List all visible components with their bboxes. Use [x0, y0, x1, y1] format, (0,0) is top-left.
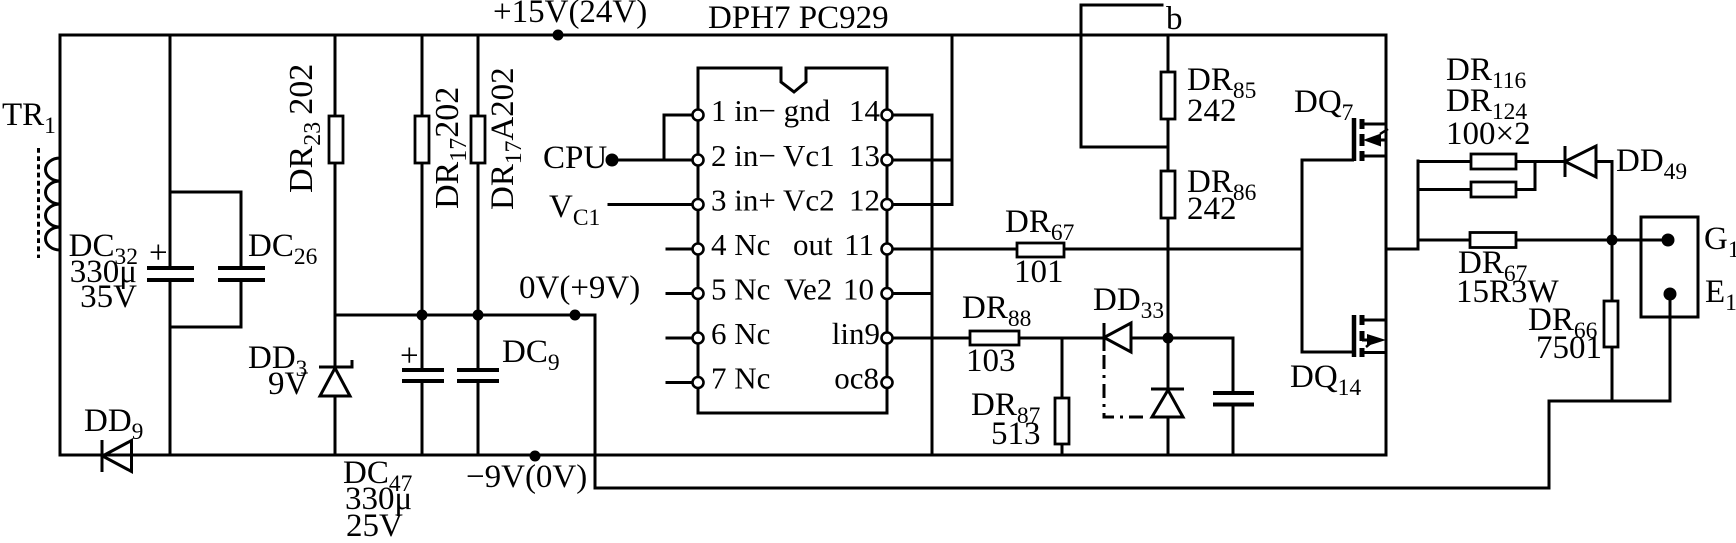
- svg-text:−9V(0V): −9V(0V): [466, 459, 587, 495]
- diode DD49: [1565, 146, 1596, 177]
- resistor DR67 (101) body: [1017, 243, 1064, 257]
- DQ14 gate bar: [1352, 315, 1357, 357]
- wire DR88 to DD33: [1019, 337, 1104, 340]
- wire bottom -9V rail: [60, 454, 1386, 457]
- wire DR86 bottom to clamp node: [1167, 218, 1170, 389]
- svg-text:513: 513: [991, 416, 1041, 452]
- svg-text:oc8: oc8: [834, 361, 879, 396]
- svg-text:b: b: [1166, 1, 1183, 37]
- svg-text:DR17202: DR17202: [429, 87, 472, 209]
- wire DR124 line left: [1418, 188, 1471, 191]
- junction dot G1 drive node: [1607, 235, 1618, 246]
- svg-text:DD33: DD33: [1093, 282, 1164, 324]
- wire DQ7 body tap with arrow: [1374, 139, 1386, 142]
- wire DC26 loop bottom: [170, 326, 241, 329]
- svg-text:+15V(24V): +15V(24V): [493, 0, 647, 30]
- wire E1 terminal down vertical: [1669, 294, 1672, 401]
- junction dot 0V rail label marker: [570, 310, 581, 321]
- svg-text:9V: 9V: [268, 366, 309, 402]
- wire pin6 stub: [667, 337, 698, 340]
- wire CPU to pin2: [612, 159, 698, 162]
- junction dot DR17/0V rail: [417, 310, 428, 321]
- wire DR17A to DC9 vertical: [477, 163, 480, 370]
- svg-text:7501: 7501: [1536, 330, 1602, 366]
- wire pin5 stub: [667, 292, 698, 295]
- wire zener bottom vertical: [1167, 417, 1170, 455]
- zener diode DD3: [319, 360, 352, 396]
- svg-text:25V: 25V: [346, 508, 403, 543]
- wire DC32 branch vertical lower: [169, 280, 172, 455]
- svg-text:G1: G1: [1704, 221, 1736, 263]
- wire DR23 top vertical: [334, 35, 337, 116]
- svg-text:14: 14: [849, 93, 881, 128]
- svg-text:TR1: TR1: [2, 97, 56, 139]
- wire right half-bridge bus vertical: [1385, 35, 1388, 455]
- wire pin9 lin to DR88: [887, 337, 970, 340]
- wire DR67 to gate drive vertical: [1064, 248, 1302, 251]
- wire b loop left vertical: [1080, 5, 1083, 147]
- wire snubber cap top vertical: [1232, 338, 1235, 393]
- wire DD33 to snubber cap corner: [1131, 337, 1233, 340]
- capacitor DC47 plates: [402, 370, 444, 381]
- node b stub top: [1081, 4, 1162, 7]
- svg-text:5 Nc: 5 Nc: [711, 272, 770, 307]
- wire E1 bottom link: [1549, 400, 1670, 403]
- wire 0V rail elbow down: [594, 315, 597, 488]
- wire gate drive vertical: [1301, 160, 1304, 352]
- resistor DR87 (513) body: [1055, 398, 1069, 444]
- wire 15R3W to G1 terminal: [1516, 239, 1668, 242]
- wire pin11 out to DR67: [887, 248, 1017, 251]
- wire DQ7 gate lead: [1302, 159, 1354, 162]
- svg-text:10: 10: [843, 272, 874, 307]
- wire snubber cap bottom vertical: [1232, 405, 1235, 456]
- op-amp U1 DPH7 PC929 IC outline with notch: [698, 68, 887, 413]
- wire pin1 stub: [664, 114, 698, 117]
- wire DQ7 source tap: [1362, 155, 1386, 158]
- wire DR85 top vertical: [1167, 35, 1170, 72]
- svg-text:13: 13: [849, 138, 880, 173]
- wire 0V(+9V) rail: [335, 314, 595, 317]
- wire DC26 loop bottom vertical: [240, 280, 243, 327]
- svg-text:242: 242: [1187, 93, 1237, 129]
- resistor DR85 body: [1161, 72, 1175, 119]
- wire gnd/Ve2 net vertical to -9V rail: [931, 115, 934, 455]
- wire DR66 top vertical: [1611, 240, 1614, 301]
- junction dot DR17A/0V rail: [473, 310, 484, 321]
- svg-text:0V(+9V): 0V(+9V): [519, 270, 640, 306]
- wire DR66 bottom vertical: [1611, 347, 1614, 401]
- diode DD9: [102, 440, 132, 472]
- svg-text:E1: E1: [1705, 274, 1736, 316]
- pin circles left 1-7: [693, 110, 893, 389]
- wire DR17 top vertical: [421, 35, 424, 116]
- svg-text:DD9: DD9: [84, 403, 143, 445]
- wire output node jog vertical: [1417, 161, 1420, 249]
- junction dot -9V rail label marker: [530, 451, 541, 462]
- svg-text:DC26: DC26: [248, 228, 318, 270]
- svg-text:100×2: 100×2: [1446, 116, 1531, 152]
- svg-text:DPH7 PC929: DPH7 PC929: [708, 0, 889, 36]
- svg-text:CPU: CPU: [543, 140, 607, 176]
- svg-text:2 in− Vc1: 2 in− Vc1: [711, 138, 835, 173]
- svg-text:35V: 35V: [80, 279, 137, 315]
- svg-text:12: 12: [849, 183, 880, 218]
- wire DC26 loop left-top vertical: [240, 192, 243, 268]
- wire pin7 stub: [667, 381, 698, 384]
- terminal dot E1: [1664, 288, 1677, 301]
- junction dot CPU node: [606, 154, 619, 167]
- svg-text:11: 11: [844, 227, 874, 262]
- wire pin10 stub: [887, 292, 932, 295]
- wire DR87 bottom vertical: [1061, 444, 1064, 455]
- svg-text:6 Nc: 6 Nc: [711, 316, 770, 351]
- wire DQ7 drain tap: [1362, 123, 1386, 126]
- capacitor DC32 plates: [147, 268, 194, 280]
- resistor DR88 (103) body: [970, 331, 1019, 345]
- svg-text:Ve2: Ve2: [784, 272, 832, 307]
- wire DQ14 source tap: [1362, 351, 1386, 354]
- terminal block G1/E1: [1641, 217, 1698, 317]
- dash-dot annotation link DD33 to zener: [1104, 355, 1147, 417]
- wire VC1 to pin3: [609, 203, 698, 206]
- svg-text:DR88: DR88: [962, 290, 1031, 332]
- wire DR116 to DD49: [1516, 160, 1565, 163]
- svg-text:DQ14: DQ14: [1290, 359, 1361, 401]
- resistor DR17A body: [471, 116, 485, 163]
- wire DR116 line left: [1418, 160, 1471, 163]
- wire DR124 right link: [1516, 188, 1535, 191]
- wire pin14 stub: [887, 114, 932, 117]
- wire DQ14 body tap with arrow: [1362, 339, 1372, 342]
- svg-text:7 Nc: 7 Nc: [711, 361, 770, 396]
- wire left vertical rail: [59, 35, 62, 455]
- wire pin1-pin2 link vertical: [663, 115, 666, 160]
- wire b loop bottom link: [1081, 146, 1168, 149]
- wire Vc supply vertical to +15V rail: [951, 35, 954, 205]
- wire DQ14 drain tap: [1362, 319, 1386, 322]
- DQ14 channel segments: [1360, 315, 1365, 357]
- pin circles right 14-8: [882, 110, 893, 121]
- wire pin4 stub: [667, 248, 698, 251]
- svg-text:4 Nc: 4 Nc: [711, 227, 770, 262]
- capacitor DC26 plates: [218, 268, 265, 280]
- wire top +15V rail: [60, 34, 1386, 37]
- svg-text:DD49: DD49: [1616, 143, 1687, 185]
- wire DC47 bottom vertical: [421, 381, 424, 455]
- wire pin12 stub: [887, 203, 952, 206]
- svg-text:103: 103: [966, 343, 1016, 379]
- svg-text:DR23202: DR23202: [283, 64, 326, 193]
- DQ14 arrow head: [1367, 334, 1386, 346]
- wire 0V return bottom line: [595, 487, 1549, 490]
- DQ7 arrow head: [1363, 134, 1381, 147]
- resistor DR23 body: [329, 116, 343, 163]
- junction dot clamp node: [1163, 333, 1174, 344]
- svg-text:242: 242: [1187, 191, 1237, 227]
- svg-text:DC9: DC9: [502, 334, 560, 376]
- transformer TR1 core dashed line: [37, 148, 40, 258]
- svg-text:101: 101: [1014, 254, 1064, 290]
- terminal dot G1: [1662, 234, 1675, 247]
- wire DR85-DR86 link: [1167, 119, 1170, 171]
- svg-text:out: out: [793, 227, 833, 262]
- svg-text:+: +: [400, 338, 419, 374]
- wire DC26 loop top: [170, 191, 241, 194]
- svg-text:DQ7: DQ7: [1294, 84, 1354, 126]
- transistor DQ14 (lower MOSFET): [1302, 315, 1386, 357]
- svg-text:lin9: lin9: [832, 316, 880, 351]
- wire DR23 to DD3 vertical: [334, 163, 337, 367]
- wire 15R3W line left: [1418, 239, 1470, 242]
- svg-text:+: +: [149, 235, 168, 271]
- wire DR87 top vertical: [1061, 338, 1064, 398]
- junction dot +15V rail: [553, 30, 564, 41]
- wire output node jog horizontal: [1386, 248, 1418, 251]
- wire DD49 corner down to G1 node: [1611, 162, 1614, 241]
- wire DD3 bottom vertical: [334, 397, 337, 455]
- wire DR17 to DC47 vertical: [421, 163, 424, 370]
- wire DR124 right link vertical: [1534, 162, 1537, 190]
- transistor DQ7 (upper MOSFET): [1302, 118, 1388, 161]
- resistor DR67 (15R3W) body: [1470, 233, 1516, 248]
- wire DR17A top vertical: [477, 35, 480, 116]
- DQ7 channel segments: [1360, 119, 1365, 161]
- resistor DR116 body: [1471, 154, 1516, 169]
- diode DD33: [1104, 323, 1131, 352]
- resistor DR17 body: [415, 116, 429, 163]
- resistor DR66 (7501) body: [1604, 301, 1618, 347]
- capacitor DC9 plates: [457, 370, 499, 381]
- wire pin13 stub: [887, 159, 952, 162]
- wire 0V return right elbow up: [1548, 401, 1551, 488]
- svg-text:3 in+ Vc2: 3 in+ Vc2: [711, 183, 835, 218]
- zener diode DW (clamp): [1151, 389, 1184, 417]
- svg-text:DR17A202: DR17A202: [485, 67, 527, 210]
- IC pin row texts: [711, 93, 881, 396]
- svg-text:VC1: VC1: [549, 189, 600, 231]
- capacitor (snubber) plates: [1213, 393, 1254, 405]
- wire DC32 branch vertical upper: [169, 35, 172, 268]
- svg-text:1 in− gnd: 1 in− gnd: [711, 93, 831, 128]
- resistor DR124 body: [1471, 182, 1516, 197]
- DQ7 gate bar: [1352, 118, 1357, 161]
- wire DQ14 gate lead: [1302, 351, 1354, 354]
- transformer TR1 winding: [45, 158, 60, 250]
- svg-text:DR67: DR67: [1005, 204, 1075, 246]
- resistor DR86 body: [1161, 171, 1175, 218]
- wire DD49 to corner: [1596, 160, 1612, 163]
- wire DC9 bottom vertical: [477, 381, 480, 455]
